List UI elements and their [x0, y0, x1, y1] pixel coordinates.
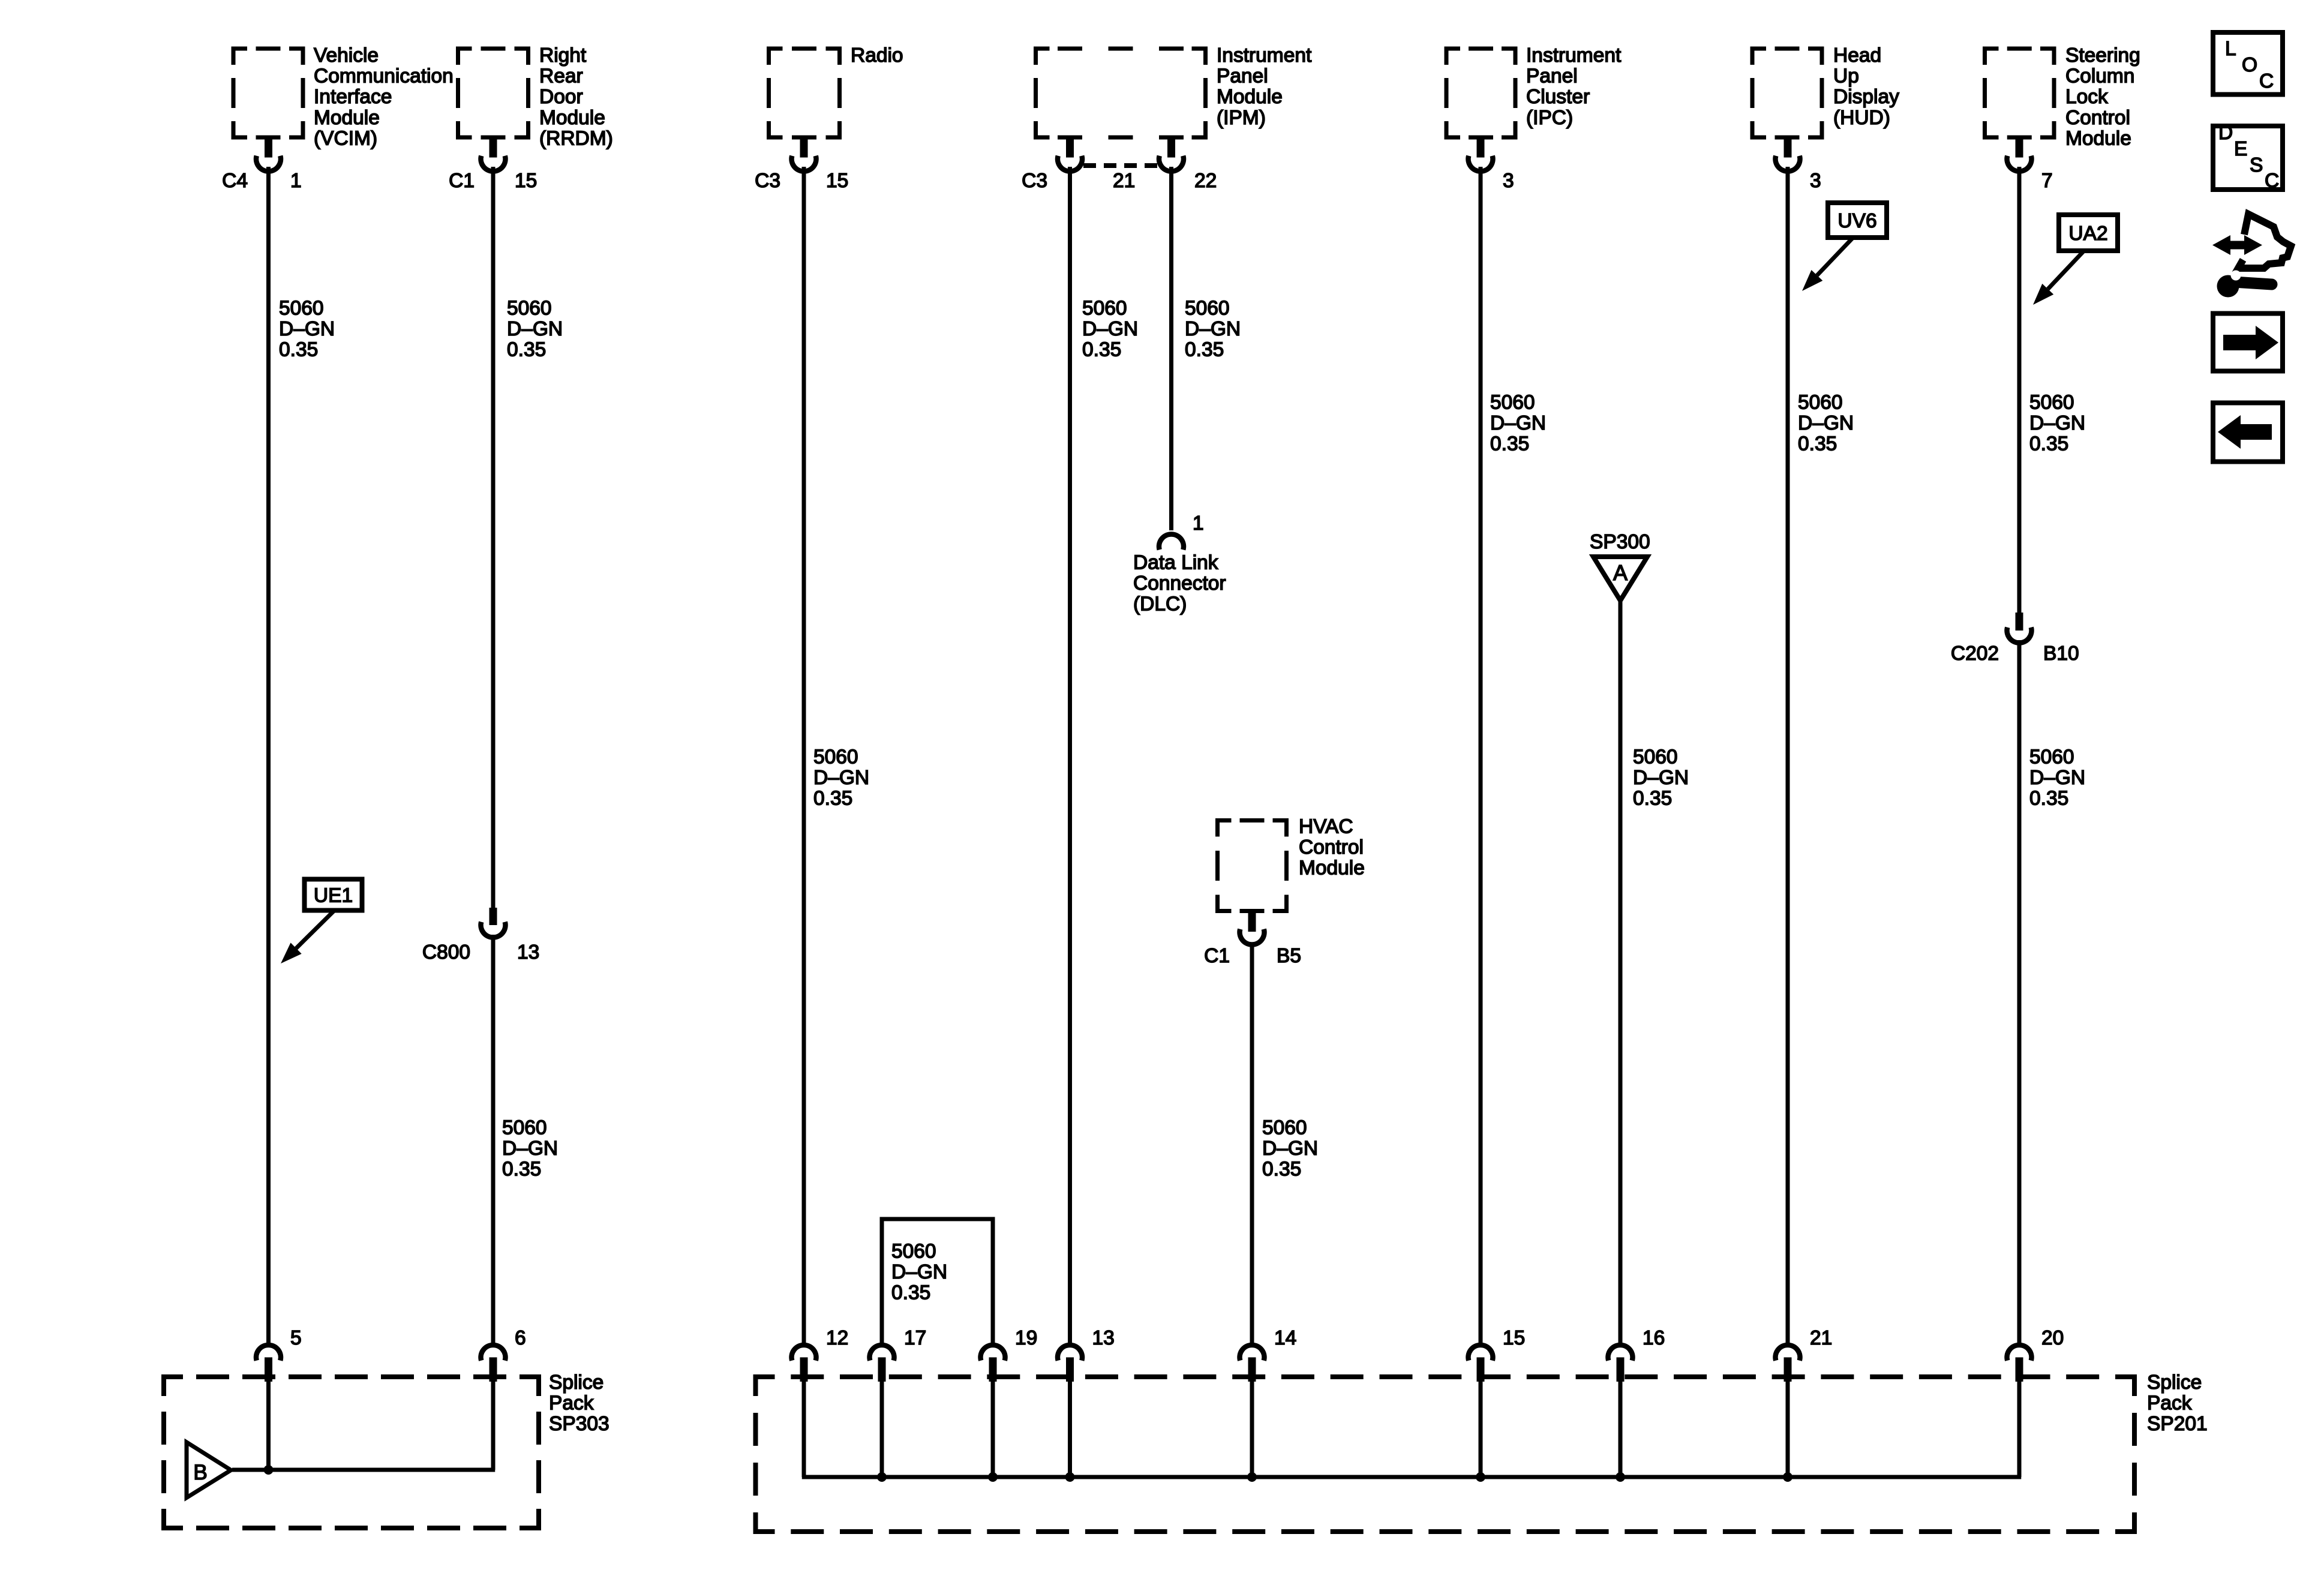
svg-text:D–GN: D–GN	[813, 767, 869, 789]
terminal cup SP201 pin 16	[1608, 1327, 1665, 1382]
connector C1 pin B5 of HVAC Control Module	[1204, 913, 1301, 967]
dashed link between IPM connector cups 21 and 22	[1083, 163, 1158, 168]
svg-text:5060: 5060	[1490, 391, 1535, 413]
internal wire SP201 pin 17 to splice bus	[880, 1379, 884, 1477]
svg-text:Vehicle: Vehicle	[314, 44, 379, 67]
svg-text:D–GN: D–GN	[891, 1261, 947, 1283]
wire loop 5060 D-GN between SP201 pins 17 and 19	[882, 1219, 993, 1343]
internal wire SP201 pin 15 to splice bus	[1479, 1379, 1483, 1477]
svg-text:5060: 5060	[1798, 391, 1843, 413]
junction node pin 19/bus in SP201	[988, 1472, 998, 1482]
svg-text:0.35: 0.35	[1633, 788, 1672, 810]
module RRDM (Right Rear Door Module) dashed box	[458, 44, 613, 149]
svg-text:Up: Up	[1833, 65, 1859, 88]
splice pack SP201 dashed box	[756, 1371, 2208, 1532]
svg-text:16: 16	[1643, 1327, 1665, 1349]
internal wire SP303 pin 6 to splice bus	[232, 1379, 495, 1470]
svg-text:(IPM): (IPM)	[1217, 107, 1266, 129]
label 5060 D-GN 0.35 on SP300 wire	[1633, 746, 1689, 809]
callout UE1 with leader arrow to VCIM wire	[281, 879, 362, 964]
wire 5060 D-GN from RRDM C1-15 to inline connector C800	[491, 167, 496, 908]
svg-text:(HUD): (HUD)	[1833, 107, 1890, 129]
label 5060 D-GN 0.35 inside the 17-19 wire loop	[891, 1240, 947, 1304]
svg-text:SP300: SP300	[1590, 531, 1650, 553]
connector C3 pin 21 of IPM	[1022, 140, 1135, 193]
splice bus wire inside SP201	[802, 1379, 2022, 1477]
svg-text:Control: Control	[1299, 836, 1364, 858]
internal wire SP201 pin 21 to splice bus	[1786, 1379, 1790, 1477]
svg-text:C1: C1	[449, 170, 475, 192]
connector C1 pin 15 of RRDM	[449, 140, 537, 193]
svg-text:21: 21	[1810, 1327, 1832, 1349]
svg-text:C1: C1	[1204, 945, 1230, 967]
svg-text:L: L	[2225, 38, 2236, 60]
svg-text:Column: Column	[2065, 65, 2134, 88]
internal wire SP303 pin 5 to splice bus	[266, 1379, 271, 1470]
internal wire SP201 pin 14 to splice bus	[1250, 1379, 1254, 1477]
inline connector C800 pin 13	[422, 908, 539, 963]
svg-text:Instrument: Instrument	[1526, 44, 1622, 67]
svg-text:Door: Door	[539, 86, 583, 108]
wire 5060 D-GN from SP300-A down to SP201 pin 16	[1619, 601, 1623, 1343]
junction node pin 21/bus in SP201	[1783, 1472, 1792, 1482]
svg-text:0.35: 0.35	[502, 1158, 541, 1181]
module VCIM (Vehicle Communication Interface Module) dashed box	[233, 44, 454, 149]
svg-text:0.35: 0.35	[1262, 1158, 1301, 1181]
svg-text:B5: B5	[1277, 945, 1301, 967]
module IPM (Instrument Panel Module) dashed box	[1036, 44, 1312, 137]
svg-text:D–GN: D–GN	[1185, 318, 1241, 340]
svg-text:20: 20	[2041, 1327, 2064, 1349]
label 5060 D-GN 0.35 on IPM pin22 wire	[1185, 297, 1241, 361]
svg-text:Pack: Pack	[2147, 1392, 2192, 1414]
svg-text:3: 3	[1503, 170, 1514, 192]
svg-text:Splice: Splice	[549, 1371, 603, 1394]
label Data Link Connector (DLC)	[1133, 551, 1226, 615]
internal wire SP201 pin 16 to splice bus	[1619, 1379, 1623, 1477]
svg-text:D–GN: D–GN	[2029, 412, 2085, 434]
terminal cup SP303 pin 5	[256, 1327, 302, 1382]
svg-text:19: 19	[1015, 1327, 1037, 1349]
svg-text:Module: Module	[1217, 86, 1283, 108]
svg-text:5060: 5060	[2029, 391, 2074, 413]
svg-text:UV6: UV6	[1837, 210, 1876, 232]
svg-text:C800: C800	[422, 941, 470, 963]
svg-text:5060: 5060	[891, 1240, 936, 1262]
svg-text:Data Link: Data Link	[1133, 551, 1218, 574]
svg-text:Rear: Rear	[539, 65, 583, 88]
junction node pin 14/bus in SP201	[1247, 1472, 1257, 1482]
svg-text:5060: 5060	[2029, 746, 2074, 768]
svg-text:D–GN: D–GN	[1633, 767, 1689, 789]
wire 5060 D-GN from IPC pin 3 down to SP201 pin 15	[1479, 167, 1483, 1343]
module Steering Column Lock Control Module dashed box	[1985, 44, 2140, 149]
terminal cup SP201 pin 17	[870, 1327, 927, 1382]
label 5060 D-GN 0.35 on SCLCM wire lower segment	[2029, 746, 2085, 809]
junction node pin5/bus in SP303	[264, 1465, 274, 1475]
svg-text:D–GN: D–GN	[1798, 412, 1854, 434]
connector pin 3 of IPC	[1469, 140, 1514, 193]
wire 5060 D-GN from HUD pin 3 down to SP201 pin 21	[1786, 167, 1790, 1343]
svg-text:D–GN: D–GN	[1082, 318, 1138, 340]
svg-text:Pack: Pack	[549, 1392, 594, 1414]
svg-text:0.35: 0.35	[2029, 433, 2068, 455]
internal wire SP201 pin 19 to splice bus	[991, 1379, 995, 1477]
module Radio dashed box	[769, 44, 903, 137]
svg-text:D–GN: D–GN	[1262, 1137, 1318, 1160]
svg-text:3: 3	[1810, 170, 1821, 192]
splice source triangle B in SP303	[187, 1442, 231, 1498]
terminal cup SP303 pin 6	[481, 1327, 526, 1382]
wire 5060 D-GN from C800-13 down to SP303 pin 6	[491, 935, 496, 1343]
svg-text:5060: 5060	[279, 297, 324, 319]
svg-text:S: S	[2250, 154, 2263, 176]
connector C3 pin 22 of IPM	[1159, 140, 1217, 193]
svg-text:13: 13	[517, 941, 539, 963]
junction node pin 13/bus in SP201	[1065, 1472, 1075, 1482]
svg-text:5060: 5060	[1185, 297, 1230, 319]
svg-text:Module: Module	[539, 107, 605, 129]
connector pin 7 of Steering Column Lock Control Module	[2007, 140, 2053, 193]
terminal cup SP201 pin 14	[1240, 1327, 1297, 1382]
svg-text:1: 1	[290, 170, 302, 192]
legend icon harness-repair (double arrow, outline, wrench)	[2212, 214, 2291, 298]
svg-text:5060: 5060	[1262, 1116, 1307, 1139]
callout UA2 with leader arrow to SCLCM wire	[2033, 215, 2118, 305]
svg-text:Right: Right	[539, 44, 587, 67]
svg-text:Control: Control	[2065, 107, 2130, 129]
label 5060 D-GN 0.35 on IPM pin21 wire	[1082, 297, 1138, 361]
junction node pin 16/bus in SP201	[1616, 1472, 1625, 1482]
svg-text:C: C	[2265, 170, 2279, 192]
module HUD (Head Up Display) dashed box	[1752, 44, 1899, 137]
label 5060 D-GN 0.35 on HVAC wire	[1262, 1116, 1318, 1180]
svg-text:1: 1	[1193, 512, 1204, 535]
svg-text:12: 12	[826, 1327, 848, 1349]
svg-text:D–GN: D–GN	[2029, 767, 2085, 789]
svg-text:UA2: UA2	[2068, 223, 2107, 245]
svg-text:15: 15	[1503, 1327, 1525, 1349]
svg-text:0.35: 0.35	[813, 788, 852, 810]
wire 5060 D-GN from IPM C3-22 down to DLC pin 1	[1169, 167, 1173, 530]
legend icon back arrow box	[2213, 403, 2283, 462]
wire 5060 D-GN from SCLCM pin 7 to inline connector C202	[2017, 167, 2022, 613]
svg-text:(DLC): (DLC)	[1133, 593, 1187, 616]
svg-text:5060: 5060	[502, 1116, 547, 1139]
svg-text:Panel: Panel	[1217, 65, 1268, 88]
internal wire SP201 pin 13 to splice bus	[1068, 1379, 1072, 1477]
connector C3 pin 15 of Radio	[755, 140, 848, 193]
inline connector C202 pin B10	[1951, 613, 2079, 665]
svg-text:5060: 5060	[1633, 746, 1678, 768]
wire 5060 D-GN from VCIM C4-1 down to SP303 pin 5	[266, 167, 271, 1343]
svg-text:SP303: SP303	[549, 1413, 609, 1435]
svg-text:13: 13	[1092, 1327, 1115, 1349]
terminal cup SP201 pin 12	[792, 1327, 849, 1382]
svg-text:D: D	[2218, 122, 2233, 144]
splice SP300 triangle A	[1590, 531, 1650, 601]
svg-text:C: C	[2259, 70, 2274, 92]
label 5060 D-GN 0.35 on RRDM wire lower segment	[502, 1116, 558, 1180]
junction node pin 17/bus in SP201	[877, 1472, 887, 1482]
svg-text:Instrument: Instrument	[1217, 44, 1312, 67]
legend icon DESC box	[2213, 122, 2283, 192]
svg-text:0.35: 0.35	[279, 339, 318, 361]
svg-text:HVAC: HVAC	[1299, 815, 1353, 837]
svg-text:Steering: Steering	[2065, 44, 2140, 67]
svg-text:UE1: UE1	[314, 885, 353, 907]
svg-text:O: O	[2242, 54, 2257, 76]
svg-text:5060: 5060	[1082, 297, 1127, 319]
svg-text:Module: Module	[2065, 127, 2131, 149]
label 5060 D-GN 0.35 on Radio wire	[813, 746, 869, 809]
svg-text:5: 5	[290, 1327, 302, 1349]
svg-text:22: 22	[1194, 170, 1217, 192]
svg-text:C4: C4	[222, 170, 248, 192]
svg-text:6: 6	[515, 1327, 526, 1349]
splice pack SP303 dashed box	[164, 1371, 609, 1528]
terminal cup SP201 pin 13	[1058, 1327, 1115, 1382]
connector pin 3 of HUD	[1776, 140, 1821, 193]
svg-text:0.35: 0.35	[507, 339, 546, 361]
svg-text:Display: Display	[1833, 86, 1899, 108]
label 5060 D-GN 0.35 on IPC wire	[1490, 391, 1546, 455]
svg-text:Radio: Radio	[851, 44, 903, 67]
svg-text:5060: 5060	[813, 746, 858, 768]
terminal cup SP201 pin 15	[1469, 1327, 1526, 1382]
svg-text:D–GN: D–GN	[502, 1137, 558, 1160]
svg-text:17: 17	[904, 1327, 926, 1349]
svg-text:14: 14	[1274, 1327, 1296, 1349]
svg-text:A: A	[1613, 560, 1628, 585]
junction node pin 15/bus in SP201	[1476, 1472, 1485, 1482]
svg-text:Communication: Communication	[314, 65, 454, 88]
svg-text:(RRDM): (RRDM)	[539, 127, 613, 149]
svg-text:0.35: 0.35	[2029, 788, 2068, 810]
wire 5060 D-GN from C202-B10 down to SP201 pin 20	[2017, 640, 2022, 1343]
svg-text:B: B	[193, 1461, 207, 1484]
label 5060 D-GN 0.35 on RRDM wire upper segment	[507, 297, 563, 361]
callout UV6 with leader arrow to HUD wire	[1802, 203, 1887, 291]
svg-text:Connector: Connector	[1133, 572, 1226, 595]
terminal cup SP201 pin 20	[2007, 1327, 2064, 1382]
label 5060 D-GN 0.35 on VCIM wire	[279, 297, 335, 361]
svg-text:Module: Module	[314, 107, 380, 129]
terminal cup DLC pin 1	[1159, 512, 1204, 550]
svg-text:D–GN: D–GN	[507, 318, 563, 340]
svg-text:15: 15	[826, 170, 848, 192]
wire 5060 D-GN from IPM C3-21 down to SP201 pin 13	[1068, 167, 1072, 1343]
legend icon LOC box	[2213, 32, 2283, 95]
svg-text:C202: C202	[1951, 643, 1999, 665]
svg-text:Interface: Interface	[314, 86, 392, 108]
svg-text:0.35: 0.35	[891, 1282, 930, 1304]
connector C4 pin 1 of VCIM	[222, 140, 301, 193]
legend icon forward arrow box	[2213, 314, 2283, 371]
svg-text:0.35: 0.35	[1185, 339, 1224, 361]
svg-text:B10: B10	[2043, 643, 2079, 665]
svg-text:SP201: SP201	[2147, 1413, 2208, 1435]
svg-text:Splice: Splice	[2147, 1371, 2202, 1394]
svg-text:5060: 5060	[507, 297, 552, 319]
svg-text:(IPC): (IPC)	[1526, 107, 1573, 129]
svg-text:0.35: 0.35	[1082, 339, 1121, 361]
svg-text:Cluster: Cluster	[1526, 86, 1590, 108]
wire 5060 D-GN from HVAC C1-B5 down to SP201 pin 14	[1250, 943, 1254, 1343]
svg-text:Module: Module	[1299, 857, 1365, 879]
label 5060 D-GN 0.35 on SCLCM wire upper segment	[2029, 391, 2085, 455]
terminal cup SP201 pin 19	[981, 1327, 1038, 1382]
svg-text:D–GN: D–GN	[279, 318, 335, 340]
wire 5060 D-GN from Radio C3-15 down to SP201 pin 12	[802, 167, 806, 1343]
module IPC (Instrument Panel Cluster) dashed box	[1446, 44, 1622, 137]
svg-text:0.35: 0.35	[1490, 433, 1529, 455]
label 5060 D-GN 0.35 on HUD wire	[1798, 391, 1854, 455]
svg-text:C3: C3	[755, 170, 780, 192]
module HVAC Control Module dashed box	[1218, 815, 1365, 911]
svg-text:(VCIM): (VCIM)	[314, 127, 377, 149]
svg-text:21: 21	[1113, 170, 1135, 192]
svg-text:C3: C3	[1022, 170, 1047, 192]
terminal cup SP201 pin 21	[1776, 1327, 1833, 1382]
svg-text:15: 15	[515, 170, 537, 192]
svg-text:Panel: Panel	[1526, 65, 1578, 88]
svg-text:D–GN: D–GN	[1490, 412, 1546, 434]
svg-text:Head: Head	[1833, 44, 1881, 67]
svg-text:7: 7	[2041, 170, 2053, 192]
svg-text:Lock: Lock	[2065, 86, 2108, 108]
svg-text:0.35: 0.35	[1798, 433, 1837, 455]
svg-text:E: E	[2234, 138, 2247, 160]
